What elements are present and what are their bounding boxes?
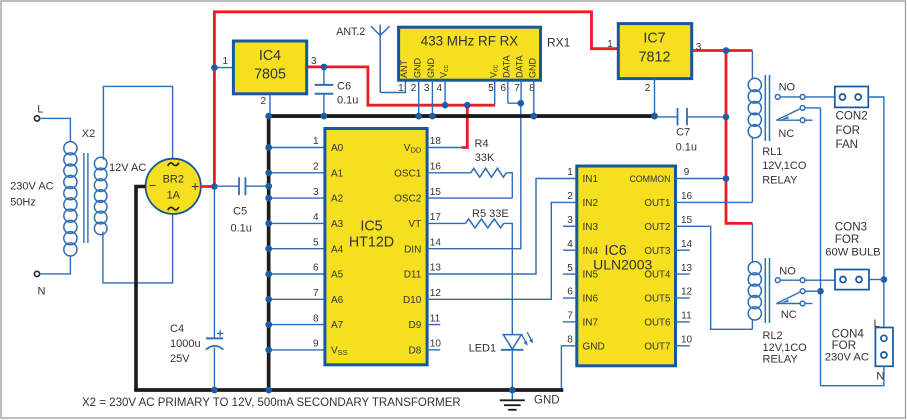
regulator IC7 7812 <box>618 24 691 79</box>
antenna ANT.2 <box>336 25 389 93</box>
wire CON2 to CON4 L <box>868 97 887 328</box>
svg-text:6: 6 <box>501 83 507 94</box>
label RL1 12V,1CO RELAY <box>762 146 807 187</box>
svg-text:3: 3 <box>424 83 430 94</box>
relay RL2 NC contact <box>776 301 812 321</box>
ground symbol <box>500 390 525 410</box>
svg-text:2: 2 <box>567 191 573 202</box>
svg-text:NO: NO <box>779 265 796 277</box>
relay RL1 pole <box>776 106 820 121</box>
wire L to transformer primary <box>40 118 71 141</box>
svg-text:IC4: IC4 <box>259 48 281 64</box>
svg-text:VDD: VDD <box>404 143 422 155</box>
svg-text:DATA: DATA <box>515 55 525 78</box>
svg-text:1: 1 <box>607 39 613 50</box>
wire BR2 plus to 12V rail and IC7 (red) <box>200 12 620 187</box>
connector CON3 <box>825 220 880 289</box>
svg-text:IN1: IN1 <box>583 174 599 185</box>
svg-text:5: 5 <box>313 237 319 248</box>
svg-text:11: 11 <box>430 313 441 324</box>
svg-text:X2: X2 <box>82 128 95 140</box>
relay RL2 NO contact <box>775 265 835 282</box>
svg-text:NC: NC <box>778 128 794 140</box>
svg-text:230V AC: 230V AC <box>10 181 53 193</box>
node L (live terminal) <box>34 104 43 122</box>
wire BR2 plus to C5 <box>214 185 239 187</box>
svg-text:12: 12 <box>430 288 442 299</box>
svg-text:IN7: IN7 <box>583 318 599 329</box>
wire OSC1 pin 16 <box>427 172 471 174</box>
label pin 1 of IC7 <box>607 39 613 50</box>
svg-text:OUT7: OUT7 <box>644 341 670 352</box>
wire secondary top to BR2 AC1 <box>103 86 172 159</box>
svg-text:15: 15 <box>430 187 442 198</box>
svg-text:D10: D10 <box>403 295 422 306</box>
svg-text:18: 18 <box>430 136 442 147</box>
label pin 2 of IC4 <box>260 96 266 107</box>
svg-text:7812: 7812 <box>639 50 671 66</box>
label 12V AC <box>109 162 146 174</box>
node BR2 plus junction <box>211 183 218 190</box>
svg-text:25V: 25V <box>170 353 190 365</box>
wire OUT1 to RL1 coil <box>676 201 753 203</box>
wire CON4 N to relay poles <box>821 366 884 385</box>
svg-text:ANT.2: ANT.2 <box>336 26 365 38</box>
svg-text:7: 7 <box>313 288 319 299</box>
svg-text:D11: D11 <box>404 270 422 281</box>
svg-text:12V,1CO: 12V,1CO <box>763 342 808 354</box>
wire OUT5 stub <box>676 297 690 299</box>
svg-text:A2: A2 <box>331 194 344 205</box>
node N (neutral terminal) <box>34 271 45 297</box>
svg-text:LED1: LED1 <box>469 343 497 355</box>
svg-text:50Hz: 50Hz <box>10 197 36 209</box>
LED LED1 <box>469 332 533 393</box>
svg-text:L: L <box>37 104 43 116</box>
relay RL2 core <box>765 258 769 323</box>
wire D10 pin 12 to IN2 <box>427 202 577 299</box>
relay RL1 NO contact <box>775 82 835 100</box>
svg-text:33K: 33K <box>475 152 495 164</box>
svg-text:A5: A5 <box>331 270 344 281</box>
wire D11 pin 13 to IN1 <box>427 179 577 275</box>
svg-text:IC7: IC7 <box>643 31 665 47</box>
svg-text:3: 3 <box>311 56 317 67</box>
svg-text:R5 33E: R5 33E <box>472 208 509 220</box>
transformer X2 secondary winding <box>94 157 107 234</box>
label RX1 <box>547 36 571 50</box>
svg-text:IN4: IN4 <box>583 246 599 257</box>
resistor R5 33E <box>466 208 509 228</box>
wire RX1 pin 8 to ground <box>531 80 538 119</box>
wire HT12D VDD pin 18 <box>427 147 466 149</box>
node ground bus top corner <box>265 113 272 120</box>
svg-text:OSC2: OSC2 <box>394 194 422 205</box>
svg-text:230V AC: 230V AC <box>825 351 869 363</box>
svg-text:7805: 7805 <box>254 67 286 83</box>
svg-text:NO: NO <box>779 82 796 94</box>
relay RL1 NC contact <box>776 118 812 140</box>
svg-text:−: − <box>149 178 157 193</box>
wire CON3 to mains line <box>869 279 884 281</box>
svg-text:16: 16 <box>681 191 693 202</box>
wire 12V to RL1 coil <box>751 51 753 80</box>
label pin 3 of IC4 <box>311 56 317 67</box>
svg-text:OUT5: OUT5 <box>644 294 671 305</box>
svg-text:14: 14 <box>681 239 693 250</box>
svg-text:FAN: FAN <box>836 138 859 151</box>
bridge rectifier BR2 <box>146 159 201 214</box>
svg-text:15: 15 <box>681 215 693 226</box>
wire OUT2 to RL2 coil <box>676 226 753 329</box>
svg-text:2: 2 <box>260 96 266 107</box>
wire 5V to HT12D VDD (red) <box>462 104 468 148</box>
svg-text:C5: C5 <box>233 206 247 218</box>
svg-text:6: 6 <box>313 263 319 274</box>
label pin 3 of IC7 <box>696 42 702 53</box>
svg-text:ANT: ANT <box>399 59 409 78</box>
svg-text:3: 3 <box>313 187 319 198</box>
svg-text:4: 4 <box>313 212 319 223</box>
svg-text:1: 1 <box>313 136 319 147</box>
wire antenna to RX1 pin 1 <box>380 80 405 92</box>
capacitor C4 1000u 25V <box>170 188 223 393</box>
svg-text:RELAY: RELAY <box>762 175 798 187</box>
wire IC7 pin 2 to ground <box>645 79 655 117</box>
node ground bus bottom corner <box>265 387 272 394</box>
top ground rail <box>267 114 655 118</box>
svg-text:0.1u: 0.1u <box>231 223 252 235</box>
svg-text:12V,1CO: 12V,1CO <box>762 160 807 172</box>
svg-text:10: 10 <box>681 335 693 346</box>
svg-text:16: 16 <box>430 162 442 173</box>
wire RL2 coil to OUT2 <box>751 319 753 329</box>
svg-text:8: 8 <box>567 335 573 346</box>
label IC6 left pin numbers <box>567 167 573 345</box>
svg-text:1A: 1A <box>167 189 181 201</box>
capacitor C6 0.1u <box>315 64 359 120</box>
svg-text:10: 10 <box>430 339 442 350</box>
svg-text:X2 = 230V AC PRIMARY TO 12V, 5: X2 = 230V AC PRIMARY TO 12V, 500mA SECON… <box>82 397 461 409</box>
svg-text:C6: C6 <box>337 81 351 93</box>
svg-text:13: 13 <box>681 263 693 274</box>
svg-text:A6: A6 <box>331 295 344 306</box>
svg-text:RELAY: RELAY <box>763 354 799 366</box>
svg-text:VSS: VSS <box>331 346 348 358</box>
svg-text:OSC1: OSC1 <box>394 168 422 179</box>
svg-text:HT12D: HT12D <box>349 235 394 251</box>
label RX1 pin numbers 1-8 <box>398 83 535 94</box>
svg-text:60W BULB: 60W BULB <box>825 246 880 258</box>
relay RL1 core <box>765 75 769 141</box>
svg-text:1: 1 <box>398 83 404 94</box>
driver IC6 ULN2003 <box>577 166 676 366</box>
wire IN3-IN7 stubs <box>563 226 577 322</box>
svg-text:GND: GND <box>426 58 436 79</box>
svg-text:DIN: DIN <box>404 244 421 255</box>
svg-text:R4: R4 <box>475 138 489 150</box>
svg-text:11: 11 <box>681 311 692 322</box>
relay RL2 pole <box>776 289 820 304</box>
svg-text:D8: D8 <box>409 346 422 357</box>
svg-text:RL1: RL1 <box>762 146 782 158</box>
svg-text:FOR: FOR <box>832 339 856 352</box>
decoder IC5 HT12D <box>325 129 427 365</box>
RF receiver module RX1 433MHz <box>399 27 541 80</box>
ground bus overdraw <box>267 114 271 392</box>
svg-text:L: L <box>874 318 880 330</box>
svg-text:VT: VT <box>409 219 422 230</box>
svg-text:NC: NC <box>781 309 797 321</box>
svg-text:433 MHz RF RX: 433 MHz RF RX <box>421 34 519 49</box>
svg-text:IN2: IN2 <box>583 198 599 209</box>
svg-text:IC5: IC5 <box>360 219 382 235</box>
label IC6 right pin numbers <box>681 167 693 345</box>
svg-text:RL2: RL2 <box>763 330 783 342</box>
svg-text:17: 17 <box>430 212 442 223</box>
svg-text:A7: A7 <box>331 320 344 331</box>
svg-text:N: N <box>38 286 46 298</box>
svg-text:1: 1 <box>567 167 573 178</box>
svg-text:ULN2003: ULN2003 <box>593 257 652 273</box>
wire relay poles to CON4 N <box>817 108 824 386</box>
svg-text:0.1u: 0.1u <box>337 95 358 107</box>
svg-text:DATA: DATA <box>501 55 511 78</box>
resistor R4 33K <box>471 138 506 177</box>
wire N to transformer primary <box>40 256 71 274</box>
label 230V AC 50Hz <box>10 181 53 209</box>
relay RL1 coil <box>748 78 761 138</box>
svg-text:5: 5 <box>567 263 573 274</box>
svg-text:7: 7 <box>514 83 520 94</box>
wire R4 to OSC2 pin 15 <box>427 173 512 198</box>
svg-text:0.1u: 0.1u <box>676 142 697 154</box>
svg-text:1: 1 <box>222 56 228 67</box>
label GND <box>534 395 560 407</box>
svg-text:9: 9 <box>684 167 690 178</box>
wire BR2 minus to bottom ground rail <box>136 187 146 391</box>
wire 12V to RL2 coil <box>751 223 753 262</box>
wire COMMON to 12V rail <box>676 175 730 182</box>
wire OUT4 stub <box>676 273 690 275</box>
wire DIN pin 14 from RF data <box>427 103 521 249</box>
regulator IC4 7805 <box>233 41 306 94</box>
wire D9 pin 11 stub <box>427 324 440 326</box>
svg-text:3: 3 <box>696 42 702 53</box>
svg-text:A0: A0 <box>331 143 344 154</box>
wire IC7 output red rail <box>691 51 753 224</box>
wire RX1 pins 6,7 DATA <box>508 80 524 106</box>
svg-text:COMMON: COMMON <box>629 174 670 184</box>
svg-text:FOR: FOR <box>836 124 860 137</box>
relay RL2 coil <box>748 262 761 320</box>
junction dots on ground rails <box>211 113 658 394</box>
node 5V junction to HT12D VDD <box>464 102 471 109</box>
capacitor C7 0.1u <box>651 108 729 154</box>
svg-text:14: 14 <box>430 237 442 248</box>
svg-text:A1: A1 <box>331 168 344 179</box>
transformer X2 primary winding <box>64 142 77 256</box>
svg-text:4: 4 <box>437 83 443 94</box>
caption transformer note <box>82 397 461 409</box>
svg-text:12: 12 <box>681 287 693 298</box>
wire HT12D address pin stubs to ground bus <box>265 144 324 353</box>
wire RX1 pin 3 to ground <box>429 80 436 119</box>
label HT12D right pin numbers <box>430 136 442 349</box>
svg-text:OUT1: OUT1 <box>644 198 670 209</box>
svg-text:2: 2 <box>313 162 319 173</box>
svg-text:OUT3: OUT3 <box>644 246 671 257</box>
svg-text:IN6: IN6 <box>583 294 599 305</box>
wire VT pin 17 <box>427 222 466 224</box>
svg-text:GND: GND <box>583 341 605 352</box>
svg-text:+: + <box>191 178 199 194</box>
label HT12D left pin numbers 1-9 <box>313 136 319 349</box>
svg-text:9: 9 <box>313 339 319 350</box>
svg-text:2: 2 <box>411 83 417 94</box>
connector CON2 <box>835 87 869 152</box>
capacitor C5 0.1u <box>231 177 273 234</box>
wire junction to IC4 pin 1 <box>211 56 233 71</box>
svg-text:13: 13 <box>430 263 442 274</box>
svg-text:RX1: RX1 <box>547 36 571 50</box>
connector CON4 <box>825 318 893 383</box>
wire secondary bottom to BR2 AC2 <box>103 214 173 283</box>
svg-text:5: 5 <box>488 83 494 94</box>
svg-text:2: 2 <box>645 83 651 94</box>
svg-text:IN3: IN3 <box>583 222 599 233</box>
svg-text:CON2: CON2 <box>836 109 868 122</box>
svg-text:CON3: CON3 <box>835 220 867 233</box>
svg-text:8: 8 <box>313 313 319 324</box>
svg-text:C7: C7 <box>676 127 690 139</box>
wire OUT7 stub <box>676 345 690 347</box>
wire RX1 pin 2 to ground <box>415 80 422 119</box>
wire OUT3 stub <box>676 249 690 251</box>
wire RX1 pin 5 Vcc <box>494 80 496 104</box>
label X2 <box>82 128 95 140</box>
bottom ground rail <box>134 388 563 392</box>
wire IC6 GND to ground rail <box>561 346 576 390</box>
transformer X2 core <box>84 153 88 243</box>
wire OUT6 stub <box>676 321 690 323</box>
svg-text:A3: A3 <box>331 219 344 230</box>
svg-text:GND: GND <box>412 58 422 79</box>
ground bus vertical (address lines) <box>267 114 271 392</box>
node IC7 output junction <box>723 47 730 54</box>
svg-text:A4: A4 <box>331 244 344 255</box>
svg-text:GND: GND <box>527 58 537 79</box>
svg-text:4: 4 <box>567 239 573 250</box>
label RL2 12V,1CO RELAY <box>763 330 808 366</box>
svg-text:OUT2: OUT2 <box>644 222 670 233</box>
svg-text:OUT6: OUT6 <box>644 318 671 329</box>
svg-text:FOR: FOR <box>835 233 859 246</box>
wire RL1 coil to OUT1 <box>751 137 753 202</box>
ground rail overdraw (bottom) <box>134 388 563 392</box>
wire IC4 output red segment <box>306 67 495 105</box>
svg-text:1000u: 1000u <box>170 338 201 350</box>
svg-text:D9: D9 <box>409 320 422 331</box>
svg-text:BR2: BR2 <box>163 173 184 185</box>
svg-text:7: 7 <box>567 311 573 322</box>
svg-text:12V AC: 12V AC <box>109 162 146 174</box>
svg-text:6: 6 <box>567 287 573 298</box>
svg-text:GND: GND <box>534 395 560 407</box>
wire RX1 pin 4 Vcc <box>442 80 449 108</box>
ground rail overdraw (top) <box>267 114 655 118</box>
svg-text:C4: C4 <box>170 323 184 335</box>
wire IC4 pin 2 to ground <box>269 94 271 115</box>
wire D8 pin 10 stub <box>427 349 440 351</box>
svg-text:3: 3 <box>567 215 573 226</box>
wire R5 to LED1 <box>504 223 513 334</box>
